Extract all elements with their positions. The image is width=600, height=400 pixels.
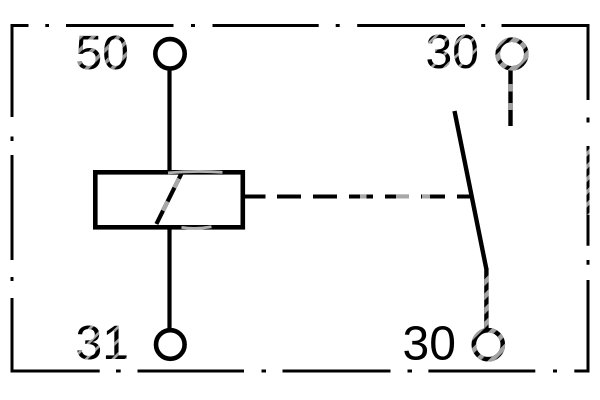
coil diagonal actuator line: [156, 172, 182, 224]
watermark stripes on right border segment: [587, 148, 590, 215]
terminal circle 30 bottom: [474, 330, 503, 359]
wire from terminal 50 to coil: [167, 71, 171, 172]
svg-text:50: 50: [76, 27, 129, 80]
relay coil K1 (rectangle): [95, 172, 243, 227]
watermark logo arc on coil top edge: [168, 171, 223, 172]
terminal circle 31: [156, 330, 185, 359]
watermark stripes on wire above terminal 30 bottom: [484, 272, 488, 329]
terminal circle 30 top: [498, 40, 527, 69]
wire from coil to terminal 31: [167, 228, 171, 329]
switch blade: [455, 111, 487, 269]
terminal circle 50: [155, 39, 184, 68]
watermark gray segments on coil diagonal: [174, 179, 179, 188]
svg-text:31: 31: [76, 317, 129, 370]
mechanical link (dashed) from coil to switch: [243, 195, 470, 199]
watermark stripes on terminal 30 bottom circle: [474, 330, 503, 359]
wire from blade to terminal 30 bottom: [484, 268, 488, 329]
watermark gray patches on dashed link: [360, 195, 367, 199]
svg-text:30: 30: [403, 318, 456, 371]
watermark gray segments on wire below terminal 30 top: [508, 84, 512, 92]
border frame top edge (dash-dot): [11, 24, 590, 27]
border frame bottom edge (dash-dot): [11, 370, 590, 373]
watermark logo arc on coil bottom edge: [182, 227, 212, 229]
wire stub below terminal 30 top: [508, 70, 512, 126]
svg-text:30: 30: [426, 26, 479, 79]
watermark stripes on terminal 30 top circle: [498, 40, 527, 69]
border frame left edge (dash-dot): [11, 24, 14, 370]
border frame right edge (dash-dot): [587, 24, 590, 370]
